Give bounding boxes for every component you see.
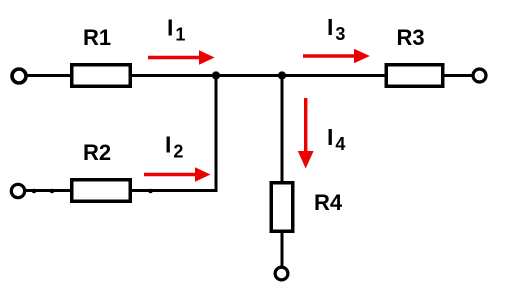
svg-text:I4: I4 (327, 124, 345, 154)
svg-text:I3: I3 (327, 14, 345, 44)
svg-text:R3: R3 (397, 25, 425, 50)
svg-text:R1: R1 (83, 25, 111, 50)
svg-text:R4: R4 (314, 190, 343, 215)
svg-text:I2: I2 (165, 132, 183, 162)
svg-text:I1: I1 (167, 15, 185, 45)
svg-text:R2: R2 (83, 140, 111, 165)
